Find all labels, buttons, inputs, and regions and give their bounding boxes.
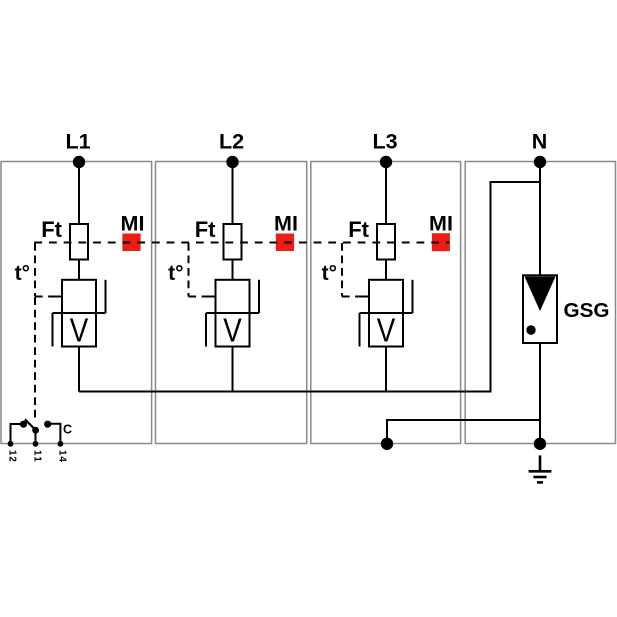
node L3 (dot) <box>380 156 392 168</box>
svg-text:Ft: Ft <box>348 217 369 242</box>
svg-text:14: 14 <box>57 450 68 462</box>
varistor left hook (L2) <box>205 313 207 347</box>
wire GSG to PE terminal <box>539 343 541 444</box>
indicator MI square (L1) <box>122 234 140 252</box>
wire L3 varistor-to-bus <box>385 347 387 392</box>
wire L3 top <box>385 162 387 224</box>
varistor left hook (L1) <box>52 313 54 347</box>
dashed t° line vertical (L1, continues to switch) <box>34 243 36 297</box>
node L1 (dot) <box>73 156 85 168</box>
wire terminal 11 riser <box>35 430 37 444</box>
svg-text:12: 12 <box>7 450 18 462</box>
contact dot 12 <box>20 421 27 428</box>
actuator link into varistor (L1) <box>54 296 62 298</box>
indicator MI square (L3) <box>432 233 450 251</box>
svg-text:Ft: Ft <box>195 217 216 242</box>
dashed MI monitoring line across phases <box>34 242 449 244</box>
spark gap triangle <box>525 277 556 312</box>
wire L2 varistor-to-bus <box>232 347 234 392</box>
wire N to GSG <box>539 162 541 276</box>
terminal dot 11 <box>33 441 39 447</box>
spark gap electrode dot <box>526 325 535 334</box>
varistor disconnector upper box (L3) <box>369 280 403 313</box>
svg-text:C: C <box>63 423 72 437</box>
varistor right hook (L2) <box>258 280 260 313</box>
bus: varistor commons to N <box>79 182 540 392</box>
node PE terminal N (dot) <box>534 438 546 450</box>
switch arm pivot dot <box>32 427 39 434</box>
svg-text:N: N <box>532 130 548 154</box>
varistor disconnector upper box (L2) <box>216 280 250 313</box>
node N (dot) <box>534 156 546 168</box>
node PE terminal L3 (dot) <box>381 438 393 450</box>
varistor lower box V (L2) <box>216 313 250 347</box>
wire L1 top <box>78 162 80 224</box>
varistor right hook (L3) <box>412 280 414 313</box>
svg-text:V: V <box>377 312 396 349</box>
dashed t° branch to varistor (L1) <box>35 296 54 298</box>
dashed t° branch to varistor (L2) <box>189 296 208 298</box>
wire PE link L3-terminal to N wire <box>387 420 540 444</box>
L2 block outline <box>156 162 307 444</box>
terminal dot 14 <box>58 441 64 447</box>
svg-text:L2: L2 <box>219 130 244 154</box>
svg-text:t°: t° <box>15 262 30 285</box>
varistor mid line extension (L1) <box>53 312 106 314</box>
actuator link into varistor (L2) <box>208 296 216 298</box>
contact dot 14 <box>44 421 51 428</box>
indicator MI square (L2) <box>276 234 294 252</box>
L1 block outline <box>1 162 152 444</box>
svg-text:L1: L1 <box>65 130 90 154</box>
wire L3 fuse-to-varistor <box>385 260 387 280</box>
varistor right hook (L1) <box>105 280 107 313</box>
varistor disconnector upper box (L1) <box>62 280 96 313</box>
switch arm <box>25 419 36 430</box>
varistor mid line extension (L3) <box>360 312 413 314</box>
wire L2 top <box>232 162 234 224</box>
svg-text:Ft: Ft <box>41 217 62 242</box>
svg-text:t°: t° <box>322 262 337 285</box>
ground symbol <box>529 455 552 482</box>
varistor lower box V (L1) <box>62 313 96 347</box>
svg-text:V: V <box>70 312 89 349</box>
dashed t° line vertical lower (L1, to contact) <box>34 297 36 418</box>
svg-text:GSG: GSG <box>564 299 610 322</box>
dashed t° branch to varistor (L3) <box>342 296 361 298</box>
svg-text:MI: MI <box>274 211 298 235</box>
node L2 (dot) <box>226 156 238 168</box>
varistor lower box V (L3) <box>369 313 403 347</box>
varistor mid line extension (L2) <box>206 312 259 314</box>
fuse Ft (L2) <box>224 224 242 260</box>
svg-text:MI: MI <box>121 211 145 235</box>
dashed t° line vertical (L3) <box>341 243 343 297</box>
svg-text:V: V <box>223 312 242 349</box>
wire terminal 12 riser <box>11 424 24 444</box>
fuse Ft (L3) <box>377 224 395 260</box>
svg-text:11: 11 <box>32 450 43 462</box>
dashed t° line vertical (L2) <box>188 243 190 297</box>
N block outline <box>465 162 615 444</box>
wire L1 fuse-to-varistor <box>78 260 80 280</box>
spark gap GSG box <box>523 275 557 343</box>
svg-text:t°: t° <box>168 262 183 285</box>
varistor left hook (L3) <box>359 313 361 347</box>
wire L1 varistor-to-bus <box>78 347 80 392</box>
actuator link into varistor (L3) <box>361 296 369 298</box>
wire terminal 14 riser <box>48 424 61 444</box>
svg-text:L3: L3 <box>372 130 397 154</box>
fuse Ft (L1) <box>70 224 88 260</box>
svg-text:MI: MI <box>429 211 453 235</box>
terminal dot 12 <box>8 441 14 447</box>
L3 block outline <box>311 162 461 444</box>
wire L2 fuse-to-varistor <box>232 260 234 280</box>
